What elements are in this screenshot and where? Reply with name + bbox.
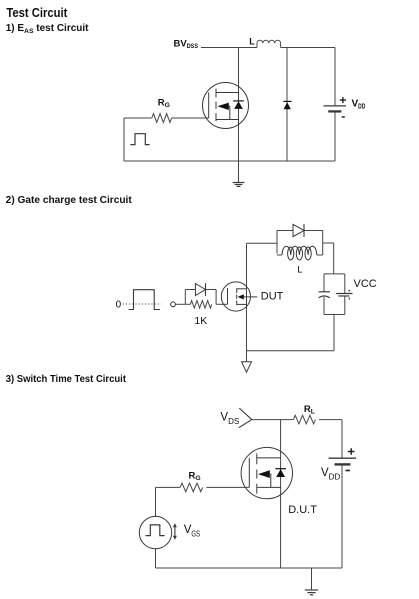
svg-text:0: 0 bbox=[116, 300, 122, 311]
svg-text:D.U.T: D.U.T bbox=[288, 504, 317, 516]
svg-text:BVDSS: BVDSS bbox=[174, 39, 199, 51]
svg-text:DUT: DUT bbox=[261, 291, 284, 303]
svg-text:VGS: VGS bbox=[184, 524, 200, 538]
svg-text:L: L bbox=[297, 264, 302, 275]
svg-text:VDD: VDD bbox=[352, 99, 366, 111]
svg-text:VDD: VDD bbox=[321, 467, 340, 481]
svg-text:2) Gate charge test Circuit: 2) Gate charge test Circuit bbox=[6, 195, 133, 206]
svg-text:RG: RG bbox=[158, 98, 170, 110]
svg-text:RG: RG bbox=[189, 471, 201, 483]
svg-text:VDS: VDS bbox=[220, 411, 239, 425]
svg-text:3) Switch Time Test Circuit: 3) Switch Time Test Circuit bbox=[6, 374, 127, 385]
svg-text:Test Circuit: Test Circuit bbox=[6, 5, 68, 20]
svg-text:RL: RL bbox=[304, 404, 315, 416]
svg-text:1K: 1K bbox=[194, 315, 207, 327]
svg-text:1) EAS test Circuit: 1) EAS test Circuit bbox=[6, 23, 89, 35]
svg-text:VCC: VCC bbox=[354, 278, 377, 290]
svg-text:L: L bbox=[249, 36, 255, 46]
